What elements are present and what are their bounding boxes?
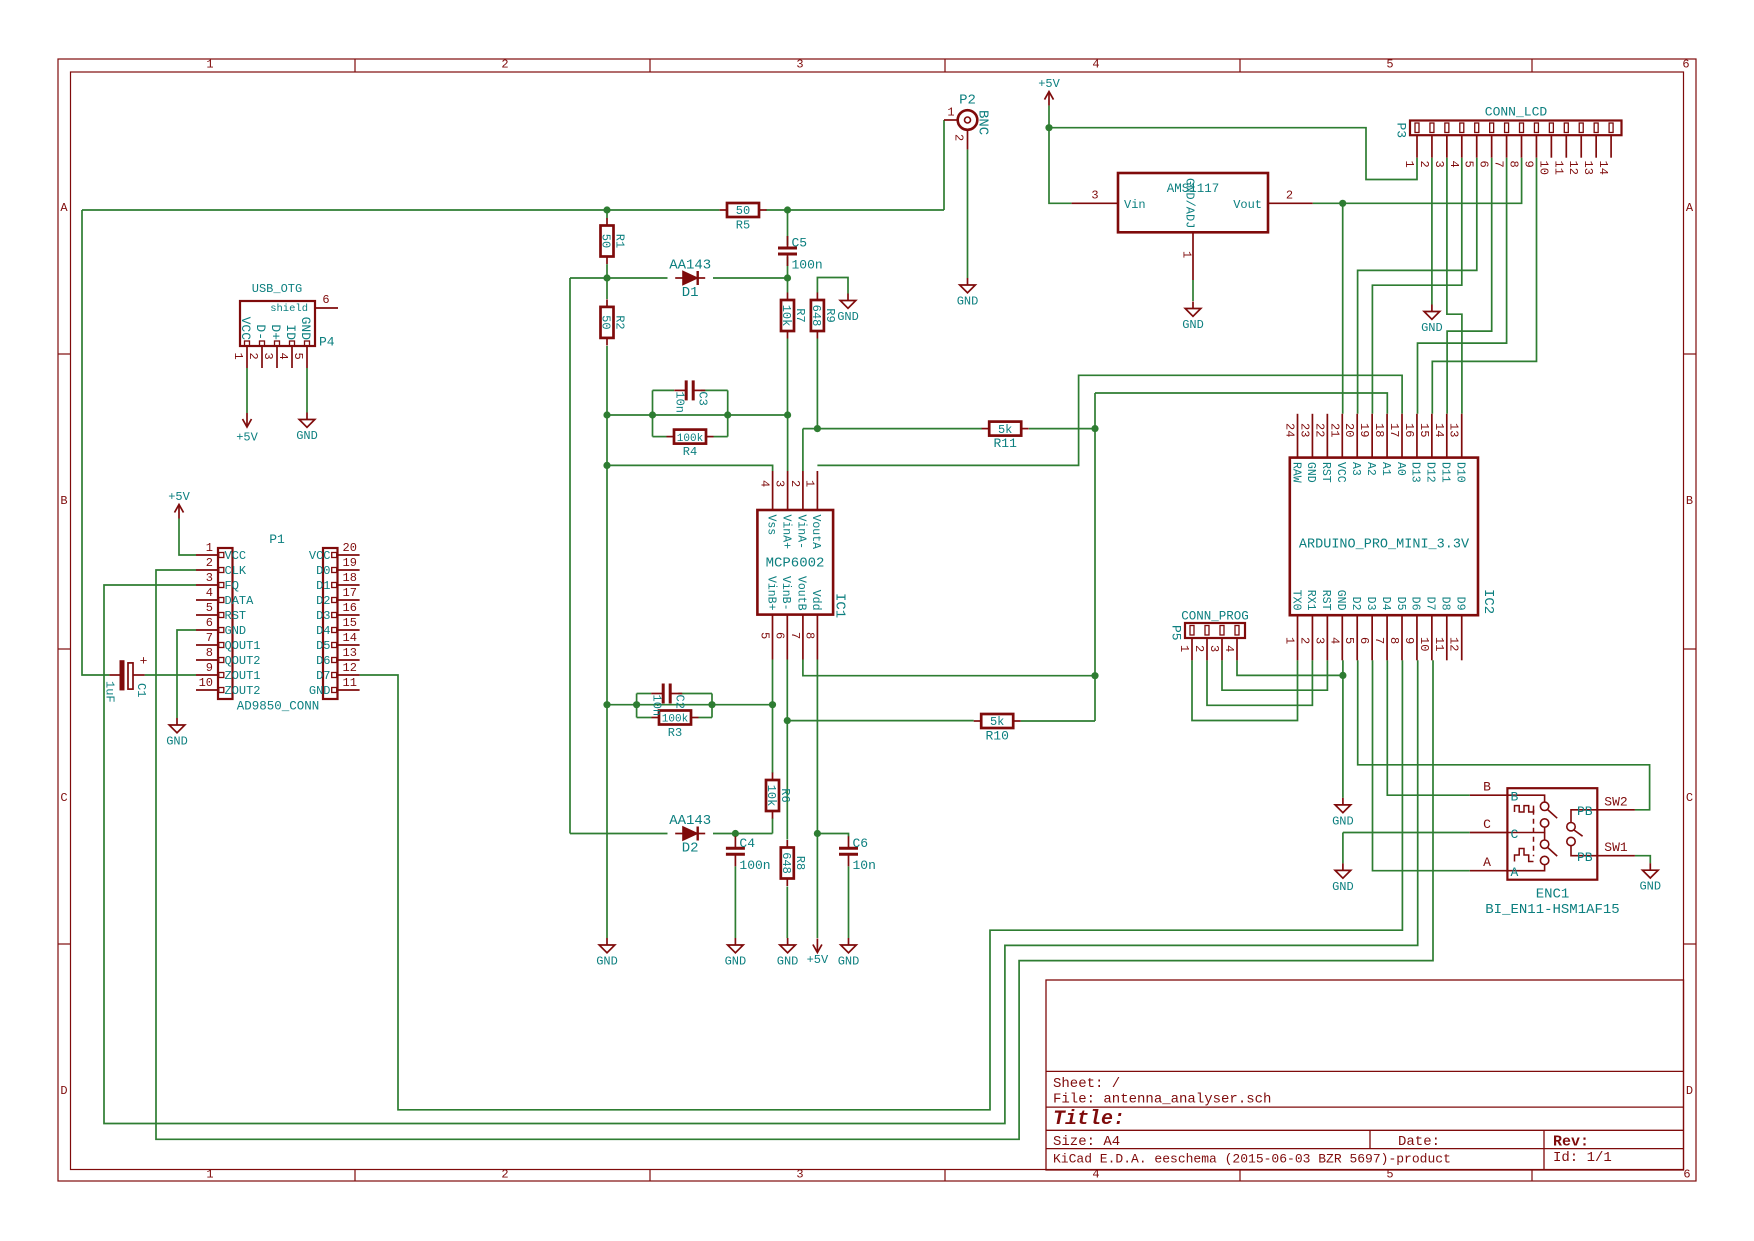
pin 2 of IC1 <box>788 471 808 549</box>
wire C2R3 left vertical <box>636 694 638 718</box>
svg-text:4: 4 <box>1447 161 1461 168</box>
ground <box>1332 798 1354 829</box>
svg-text:GND: GND <box>1182 318 1204 332</box>
wire branch to C6 <box>817 834 848 837</box>
resistor R10 <box>974 714 1021 744</box>
regulator U AMS1117 <box>1072 173 1313 280</box>
svg-text:P5: P5 <box>1169 625 1184 641</box>
svg-text:16: 16 <box>343 601 357 615</box>
svg-text:VoutB: VoutB <box>795 576 808 611</box>
wire CLK to D7 <box>156 570 1433 1139</box>
svg-text:17: 17 <box>343 586 357 600</box>
svg-text:CONN_LCD: CONN_LCD <box>1485 105 1548 120</box>
svg-text:2: 2 <box>952 134 966 141</box>
svg-text:20: 20 <box>1342 423 1356 437</box>
pin 14 of P3 <box>1596 123 1613 175</box>
svg-text:9: 9 <box>206 661 213 675</box>
svg-text:50: 50 <box>736 204 750 218</box>
wire MCP Vdd pin down <box>816 660 818 834</box>
svg-text:+: + <box>140 654 148 669</box>
svg-text:+5V: +5V <box>807 953 829 967</box>
junction <box>1045 124 1052 131</box>
wire D1 anode row <box>570 277 668 279</box>
resistor R4 <box>667 430 714 460</box>
wire R3 right <box>699 717 713 719</box>
wire BNC net down to C1 <box>82 210 109 675</box>
wire up to BNC pin1 <box>943 120 945 210</box>
junction <box>1339 200 1346 207</box>
pin 23 of IC2 <box>1297 414 1317 483</box>
junction <box>1339 672 1346 679</box>
svg-text:14: 14 <box>1432 423 1446 437</box>
pin 1 of IC2 <box>1283 590 1303 661</box>
svg-text:648: 648 <box>809 305 823 327</box>
connector P1 AD9850_CONN <box>218 532 338 714</box>
wire R3 left <box>637 717 652 719</box>
resistor R7 <box>779 293 807 339</box>
wire P4 GND pin <box>306 368 308 413</box>
svg-text:2: 2 <box>1286 188 1293 202</box>
svg-text:648: 648 <box>779 852 793 874</box>
pin 5 of P1 <box>196 601 246 623</box>
pin 11 of P3 <box>1551 123 1568 175</box>
wire BNC input to R5 <box>82 209 719 211</box>
pin 3 of IC2 <box>1312 590 1332 661</box>
ground <box>838 938 860 969</box>
pin 8 of IC1 <box>802 590 822 660</box>
svg-text:GND: GND <box>298 317 313 341</box>
junction <box>603 462 610 469</box>
svg-text:PB: PB <box>1577 804 1593 819</box>
svg-text:1uF: 1uF <box>103 681 117 703</box>
ground <box>296 413 318 444</box>
svg-text:2: 2 <box>1297 637 1311 644</box>
wire R2 top <box>606 278 608 299</box>
svg-text:100k: 100k <box>662 714 689 726</box>
resistor R5 <box>720 203 767 233</box>
wire +5V stem <box>1048 106 1050 128</box>
svg-text:GND: GND <box>777 955 799 969</box>
wire CONN_LCD pin6 to D11 <box>1447 158 1492 414</box>
resistor R1 <box>599 218 627 264</box>
svg-text:1: 1 <box>802 480 816 487</box>
pin 6 of IC1 <box>772 576 792 660</box>
svg-text:100n: 100n <box>739 858 770 873</box>
wire R7 bottom to VinA+ node <box>787 339 789 416</box>
svg-text:GND: GND <box>596 955 618 969</box>
svg-text:1: 1 <box>1402 161 1416 168</box>
svg-text:2: 2 <box>1192 645 1206 652</box>
resistor R8 <box>779 840 807 886</box>
svg-text:GND: GND <box>309 684 331 698</box>
svg-text:D9: D9 <box>1454 597 1467 611</box>
svg-text:AA143: AA143 <box>669 258 711 274</box>
svg-text:D0: D0 <box>316 564 330 578</box>
pin 1 of P1 <box>196 541 246 563</box>
svg-text:3: 3 <box>796 58 803 72</box>
svg-text:5: 5 <box>1462 161 1476 168</box>
svg-text:14: 14 <box>343 631 357 645</box>
svg-text:QOUT1: QOUT1 <box>225 639 261 653</box>
svg-text:10: 10 <box>1417 637 1431 651</box>
svg-text:D3: D3 <box>316 609 330 623</box>
svg-text:P2: P2 <box>959 93 976 109</box>
svg-text:21: 21 <box>1327 423 1341 437</box>
svg-text:R11: R11 <box>993 436 1017 451</box>
svg-text:3: 3 <box>1432 161 1446 168</box>
svg-text:SW2: SW2 <box>1604 794 1627 809</box>
pin 17 of P1 <box>316 586 360 608</box>
pin 8 of P3 <box>1507 123 1524 168</box>
svg-text:SW1: SW1 <box>1604 840 1628 855</box>
svg-text:4: 4 <box>1222 645 1236 652</box>
wire C6 bottom to GND <box>848 866 850 938</box>
pin 14 of P1 <box>316 631 360 653</box>
pin 6 of IC2 <box>1357 597 1377 661</box>
svg-text:C5: C5 <box>792 236 808 251</box>
svg-text:GND: GND <box>838 955 860 969</box>
pin 1 of P3 <box>1402 123 1419 168</box>
svg-text:AD9850_CONN: AD9850_CONN <box>237 700 320 714</box>
power +5V <box>1038 77 1060 106</box>
svg-text:50: 50 <box>599 315 613 329</box>
svg-text:D3: D3 <box>1364 597 1377 611</box>
wire +5V to AMS1117 Vin <box>1049 128 1072 204</box>
pin 2 of IC2 <box>1297 590 1317 661</box>
wire gnd net to GND <box>606 705 608 938</box>
svg-text:GND: GND <box>296 429 318 443</box>
svg-text:B: B <box>1686 494 1693 508</box>
svg-text:R4: R4 <box>683 445 697 459</box>
svg-text:50: 50 <box>599 234 613 248</box>
svg-text:BNC: BNC <box>975 110 991 135</box>
pin 20 of IC2 <box>1342 414 1362 476</box>
svg-text:VinB-: VinB- <box>779 576 792 611</box>
svg-text:11: 11 <box>1551 161 1565 175</box>
svg-text:3: 3 <box>773 480 787 487</box>
wire R4 left <box>653 436 667 438</box>
wire C3 right <box>701 389 728 391</box>
svg-text:C: C <box>1686 791 1693 805</box>
junction <box>633 701 640 708</box>
svg-text:2: 2 <box>1417 161 1431 168</box>
svg-text:4: 4 <box>276 353 290 360</box>
svg-text:D5: D5 <box>1394 597 1407 611</box>
svg-text:D12: D12 <box>1424 462 1437 483</box>
svg-text:D1: D1 <box>682 285 699 301</box>
svg-text:VCC: VCC <box>238 317 253 341</box>
svg-text:P1: P1 <box>269 532 285 547</box>
junction <box>603 701 610 708</box>
svg-text:13: 13 <box>1581 161 1595 175</box>
diode D2 <box>669 813 711 857</box>
svg-text:18: 18 <box>343 571 357 585</box>
wire to R10 <box>1094 676 1096 721</box>
wire MCP VinB+ pin down <box>772 660 774 705</box>
svg-text:A1: A1 <box>1379 462 1392 476</box>
pin 9 of P3 <box>1521 123 1538 168</box>
wire VinA+ mid row <box>607 414 788 416</box>
svg-text:7: 7 <box>206 631 213 645</box>
wire D1 anode to D2 anode <box>569 278 571 834</box>
svg-text:4: 4 <box>1092 58 1099 72</box>
pin 15 of IC2 <box>1417 414 1437 483</box>
pin 5 of P4 <box>291 317 313 368</box>
pin 10 of P1 <box>196 676 261 698</box>
svg-text:4: 4 <box>206 586 213 600</box>
ground <box>1639 863 1661 894</box>
wire C4 top <box>734 834 736 837</box>
svg-text:A0: A0 <box>1394 462 1407 476</box>
svg-text:6: 6 <box>1682 58 1689 72</box>
svg-text:D: D <box>1686 1084 1693 1098</box>
svg-text:VCC: VCC <box>225 549 247 563</box>
wire CONN_LCD pin5 to A3 <box>1358 158 1477 414</box>
wire D2 cathode row <box>713 833 773 835</box>
svg-text:C1: C1 <box>134 683 148 697</box>
svg-text:2: 2 <box>788 480 802 487</box>
svg-text:RST: RST <box>225 609 247 623</box>
capacitor C4 <box>726 836 771 873</box>
pin 24 of IC2 <box>1283 414 1303 483</box>
svg-text:7: 7 <box>1372 637 1386 644</box>
module IC2 ARDUINO_PRO_MINI_3.3V <box>1290 458 1496 616</box>
junction <box>732 830 739 837</box>
junction <box>814 830 821 837</box>
svg-text:R10: R10 <box>985 729 1008 744</box>
svg-text:GND: GND <box>225 624 247 638</box>
svg-text:6: 6 <box>1357 637 1371 644</box>
wire C2 right <box>678 693 712 695</box>
wire CONN_LCD pin2 to GND <box>1431 158 1433 305</box>
svg-text:D6: D6 <box>1409 597 1422 611</box>
wire to MCP VinA+ pin <box>787 415 789 471</box>
svg-text:10: 10 <box>199 676 213 690</box>
diode D1 <box>669 258 711 302</box>
svg-text:3: 3 <box>1207 645 1221 652</box>
svg-text:A2: A2 <box>1364 462 1377 476</box>
svg-text:C2: C2 <box>673 695 687 709</box>
title block <box>1046 980 1684 1170</box>
pin 3 of IC1 <box>773 471 793 549</box>
svg-text:18: 18 <box>1372 423 1386 437</box>
wire P5 pin4 to GND <box>1237 660 1343 675</box>
svg-text:12: 12 <box>1566 161 1580 175</box>
pin 7 of IC1 <box>788 576 808 660</box>
rotary encoder ENC1 <box>1470 788 1635 918</box>
svg-text:Size: A4: Size: A4 <box>1053 1134 1120 1150</box>
svg-text:5k: 5k <box>998 423 1012 437</box>
svg-text:1: 1 <box>1283 637 1297 644</box>
svg-text:B: B <box>1511 790 1519 805</box>
pin 7 of IC2 <box>1372 597 1392 661</box>
svg-text:GND: GND <box>1334 590 1347 611</box>
pin 6 of P3 <box>1477 123 1494 168</box>
pin 7 of P3 <box>1492 123 1509 168</box>
svg-text:2: 2 <box>501 1168 508 1182</box>
wire VinB+ mid row <box>607 704 773 706</box>
wire SW1 to GND <box>1635 856 1650 864</box>
ground <box>777 938 799 969</box>
pin 8 of IC2 <box>1387 597 1407 661</box>
resistor R6 <box>764 773 792 819</box>
connector P4 USB_OTG <box>240 282 338 350</box>
svg-text:13: 13 <box>1447 423 1461 437</box>
svg-text:3: 3 <box>1312 637 1326 644</box>
svg-text:IC2: IC2 <box>1480 589 1496 614</box>
svg-text:VCC: VCC <box>309 549 331 563</box>
capacitor C5 <box>778 236 823 273</box>
svg-text:D4: D4 <box>1379 597 1392 611</box>
resistor R2 <box>599 299 627 345</box>
capacitor C6 <box>839 836 876 873</box>
wire arduino GND pin down <box>1342 660 1344 798</box>
svg-text:C3: C3 <box>696 391 710 405</box>
svg-text:+5V: +5V <box>236 431 258 445</box>
wire VinB- to R10 <box>787 720 973 722</box>
svg-text:IC1: IC1 <box>832 593 848 618</box>
wire to R6 top <box>772 705 774 774</box>
pin 12 of P3 <box>1566 123 1583 175</box>
pin 22 of IC2 <box>1312 414 1332 483</box>
pin 4 of P1 <box>196 586 254 608</box>
junction <box>784 206 791 213</box>
pin 9 of IC2 <box>1402 597 1422 661</box>
svg-text:4: 4 <box>1327 637 1341 644</box>
wire CONN_LCD pin4 to A2 <box>1372 158 1461 414</box>
svg-text:8: 8 <box>802 632 816 639</box>
svg-text:shield: shield <box>270 303 308 315</box>
junction <box>784 411 791 418</box>
pin 5 of IC2 <box>1342 597 1362 661</box>
svg-text:D4: D4 <box>316 624 330 638</box>
svg-text:D5: D5 <box>316 639 330 653</box>
svg-text:MCP6002: MCP6002 <box>766 556 825 572</box>
wire CONN_LCD pin3 to D10 <box>1447 158 1462 414</box>
junction <box>708 701 715 708</box>
pin 3 of P1 <box>196 571 239 593</box>
wire VCC to arduino VCC <box>1342 203 1344 413</box>
svg-text:D10: D10 <box>1454 462 1467 483</box>
svg-text:C: C <box>60 791 67 805</box>
connector P2 BNC <box>944 93 991 150</box>
svg-text:AA143: AA143 <box>669 813 711 829</box>
svg-text:CONN_PROG: CONN_PROG <box>1181 610 1249 624</box>
wire CONN_LCD pin9 to D12 <box>1432 158 1536 414</box>
svg-text:CLK: CLK <box>225 564 247 578</box>
svg-text:ENC1: ENC1 <box>1536 887 1570 903</box>
power +5V down <box>236 413 258 445</box>
svg-text:TX0: TX0 <box>1289 590 1302 611</box>
svg-text:20: 20 <box>343 541 357 555</box>
junction <box>784 717 791 724</box>
wire AD9850 GND pin <box>177 630 196 718</box>
svg-text:GND: GND <box>166 735 188 749</box>
wire D2 to SW2 <box>1358 660 1650 810</box>
svg-text:DATA: DATA <box>225 594 255 608</box>
wire to R8 top <box>786 721 788 840</box>
wire C3R4 left vertical <box>652 390 654 436</box>
svg-text:100k: 100k <box>677 433 704 445</box>
svg-text:D6: D6 <box>316 654 330 668</box>
svg-text:5: 5 <box>206 601 213 615</box>
svg-text:3: 3 <box>1091 188 1098 202</box>
wire VCC to CONN_LCD pin8 <box>1343 158 1522 204</box>
svg-text:P4: P4 <box>319 335 335 350</box>
pin 13 of P3 <box>1581 123 1598 175</box>
svg-text:FQ: FQ <box>225 579 239 593</box>
svg-text:RX1: RX1 <box>1304 590 1317 611</box>
pin 13 of P1 <box>316 646 360 668</box>
pin 12 of P1 <box>316 661 360 683</box>
svg-text:ZOUT1: ZOUT1 <box>225 669 261 683</box>
svg-text:B: B <box>1483 780 1491 795</box>
junction <box>649 411 656 418</box>
svg-text:Date:: Date: <box>1398 1134 1440 1150</box>
svg-text:P3: P3 <box>1394 123 1409 139</box>
svg-text:12: 12 <box>1447 637 1461 651</box>
svg-text:9: 9 <box>1402 637 1416 644</box>
svg-text:GND: GND <box>1304 462 1317 483</box>
svg-text:USB_OTG: USB_OTG <box>252 282 302 296</box>
pin 14 of IC2 <box>1432 414 1452 483</box>
wire VoutB row <box>803 660 1095 676</box>
wire R11 right <box>1029 428 1095 430</box>
svg-text:D-: D- <box>253 324 268 340</box>
svg-text:GND: GND <box>1332 814 1354 828</box>
svg-text:GND: GND <box>957 295 979 309</box>
svg-text:10n: 10n <box>673 391 687 413</box>
pin 11 of P1 <box>309 676 360 698</box>
resistor R11 <box>982 422 1029 452</box>
svg-text:ZOUT2: ZOUT2 <box>225 684 261 698</box>
pin 3 of P4 <box>261 324 283 368</box>
svg-text:10n: 10n <box>853 858 876 873</box>
svg-text:GND/ADJ: GND/ADJ <box>1183 178 1197 228</box>
svg-text:A3: A3 <box>1349 462 1362 476</box>
svg-text:1: 1 <box>231 353 245 360</box>
pin 4 of P5 <box>1222 626 1239 661</box>
wire Vss row <box>607 465 773 471</box>
svg-text:8: 8 <box>1507 161 1521 168</box>
svg-text:D2: D2 <box>682 841 699 857</box>
svg-text:1: 1 <box>206 1168 213 1182</box>
svg-text:D2: D2 <box>316 594 330 608</box>
wire VoutA to A0 <box>817 375 1402 465</box>
svg-text:Vout: Vout <box>1233 198 1262 212</box>
wire FQ to D6 <box>104 585 1418 1124</box>
wire D4 to encoder B <box>1387 660 1470 795</box>
svg-text:D7: D7 <box>1424 597 1437 611</box>
ground <box>1182 302 1204 333</box>
wire +5V to CONN_LCD pin1 <box>1049 128 1417 180</box>
svg-text:24: 24 <box>1283 423 1297 437</box>
pin 16 of IC2 <box>1402 414 1422 483</box>
svg-text:GND: GND <box>1639 880 1661 894</box>
wire P4 VCC to +5V <box>246 368 248 413</box>
svg-text:3: 3 <box>206 571 213 585</box>
pin 1 of P5 <box>1177 626 1194 661</box>
junction <box>603 274 610 281</box>
wire node A1 to arduino <box>1095 393 1387 414</box>
resistor R3 <box>652 711 699 741</box>
wire R9 bottom <box>816 339 818 429</box>
svg-text:D11: D11 <box>1439 462 1452 483</box>
svg-text:19: 19 <box>1357 423 1371 437</box>
svg-text:VinA+: VinA+ <box>779 515 792 550</box>
svg-text:6: 6 <box>322 293 329 307</box>
svg-text:+5V: +5V <box>1038 77 1060 91</box>
